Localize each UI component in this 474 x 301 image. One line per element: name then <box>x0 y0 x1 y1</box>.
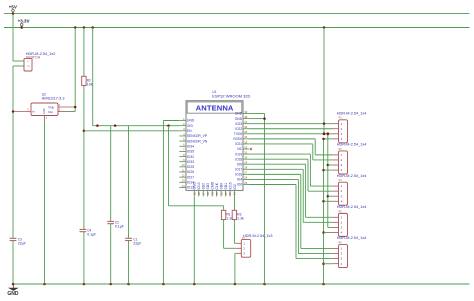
wire IO22 to P2.2 <box>249 128 333 130</box>
pin P5.4 <box>333 231 339 233</box>
svg-text:16: 16 <box>197 192 201 195</box>
svg-text:0.1µF: 0.1µF <box>115 225 124 229</box>
svg-text:13: 13 <box>182 179 185 183</box>
wire switch pin2 return down to C3/U2 <box>13 65 24 67</box>
svg-text:IO32: IO32 <box>187 155 194 159</box>
svg-text:IO16: IO16 <box>235 173 242 177</box>
pin P2.1 <box>333 123 339 125</box>
pin U1.19 CMD <box>211 191 213 197</box>
pin U1.2 3V3 <box>179 125 186 127</box>
svg-text:39: 39 <box>244 110 247 114</box>
svg-text:GND: GND <box>235 117 243 121</box>
pin U1.4 SENSOR_VP <box>179 135 186 137</box>
svg-text:3V3: 3V3 <box>187 124 193 128</box>
pin U2.4 TAB <box>58 106 75 108</box>
svg-text:15: 15 <box>193 192 197 195</box>
pin P6.2 <box>333 253 339 255</box>
svg-text:NC: NC <box>237 147 242 151</box>
wire 3V3 to C1 <box>128 126 130 239</box>
wire +5V down to switch <box>12 14 14 61</box>
wire RXD0 staircase to header <box>249 138 315 140</box>
pin U1.10 IO25 <box>179 166 186 168</box>
svg-text:CMD: CMD <box>210 181 214 189</box>
module U1 ESP32 WROOM 32D <box>186 90 251 191</box>
svg-text:IO17: IO17 <box>235 168 242 172</box>
svg-text:SD1: SD1 <box>224 183 228 190</box>
svg-text:10k: 10k <box>87 83 93 87</box>
pin U1.5 SENSOR_VN <box>179 140 186 142</box>
svg-text:+5V: +5V <box>9 5 18 10</box>
capacitor C4 0.1uF <box>80 228 97 236</box>
wire IO5 staircase to header <box>249 163 306 165</box>
pin U1.13 IO14 <box>179 181 186 183</box>
svg-text:IO26: IO26 <box>187 170 194 174</box>
wire 3V3 to C2 <box>110 126 112 222</box>
svg-text:24: 24 <box>233 192 237 195</box>
svg-text:EN: EN <box>187 129 192 133</box>
node GND38 junction <box>263 117 266 120</box>
svg-text:IO19: IO19 <box>235 152 242 156</box>
svg-text:AMS1117-3.3: AMS1117-3.3 <box>42 97 65 101</box>
pin U1.3 EN <box>179 130 186 132</box>
pin U1.6 IO34 <box>179 145 186 147</box>
svg-text:SD0: SD0 <box>219 183 223 190</box>
connector P1 HDR-M-2.54_1x2 SWITCH <box>24 52 55 71</box>
wire switch pin1 feed <box>13 60 24 62</box>
svg-text:12: 12 <box>182 173 185 177</box>
svg-text:RXD0: RXD0 <box>233 137 242 141</box>
wire bus B (pin-4 GND chain) <box>323 139 325 284</box>
pin P4.3 <box>333 195 339 197</box>
pin U2.3 In <box>13 111 31 113</box>
capacitor C1 22uF <box>125 237 141 245</box>
capacitor C2 0.1uF <box>107 220 124 228</box>
pin U1.24 IO2 <box>234 191 236 197</box>
pin U1.11 IO26 <box>179 171 186 173</box>
svg-text:29: 29 <box>244 161 247 165</box>
svg-text:21: 21 <box>219 192 223 195</box>
pin U1.12 IO27 <box>179 176 186 178</box>
node U2 In junction <box>12 110 15 113</box>
svg-text:26: 26 <box>244 176 247 180</box>
pin P3.1 <box>333 154 339 156</box>
wire +5V rail <box>4 13 470 15</box>
ground symbol GND <box>7 284 19 297</box>
wire IO17 staircase to header <box>249 168 303 170</box>
svg-text:HDR-M-2.54_1x4: HDR-M-2.54_1x4 <box>337 143 367 147</box>
svg-text:IO27: IO27 <box>187 175 194 179</box>
pin U1.33 IO21 <box>243 143 249 145</box>
pin U1.36 IO22 <box>243 128 249 130</box>
pin U1.27 IO16 <box>243 173 249 175</box>
svg-text:35: 35 <box>244 130 247 134</box>
wire U1 bottom GND to rail <box>193 197 195 285</box>
wire GND rail <box>13 283 470 285</box>
svg-text:HDR-M-2.54_1x4: HDR-M-2.54_1x4 <box>337 174 367 178</box>
pin U1.16 IO13 <box>198 191 200 197</box>
node bus B junctions <box>322 138 325 141</box>
wire bus B stub to P2.4 <box>324 138 333 140</box>
svg-text:38: 38 <box>244 115 247 119</box>
pin P6.1 <box>333 247 339 249</box>
resistor R3 1.3k <box>232 210 244 220</box>
wire U1 IO2 to R3 <box>234 197 236 211</box>
svg-text:36: 36 <box>244 125 247 129</box>
svg-text:IO13: IO13 <box>197 182 201 189</box>
wire U1 GND pin1 to rail <box>163 120 179 122</box>
wire 3V3 junction down to R1 <box>168 126 170 206</box>
wire +3.3V to U2 output <box>74 28 76 112</box>
pin U1.26 IO4 <box>243 178 249 180</box>
wire IO19 staircase to header <box>249 153 310 155</box>
svg-text:0.1µF: 0.1µF <box>87 233 96 237</box>
pin U1.22 SD1 <box>225 191 227 197</box>
wire U1 GND38 join <box>249 118 265 120</box>
wire IO23 to P2.1 <box>249 123 333 125</box>
node V1 junctions <box>323 122 326 125</box>
pin P3.4 <box>333 169 339 171</box>
svg-text:HDR-M-2.54_1x4: HDR-M-2.54_1x4 <box>337 236 367 240</box>
pin U1.35 TXD0 <box>243 133 249 135</box>
node U2 TAB junction <box>74 106 77 109</box>
svg-text:CLK: CLK <box>215 182 219 189</box>
svg-text:GND: GND <box>187 119 195 123</box>
wire EN to ESP32 <box>84 130 179 132</box>
svg-text:GND: GND <box>7 291 19 297</box>
svg-text:1.3k: 1.3k <box>237 217 244 221</box>
connector P7 HDR-M-2.54_1x3 <box>241 234 272 257</box>
wire U1 GND39 to rail <box>249 113 265 115</box>
pin P5.2 <box>333 221 339 223</box>
pin U1.18 SD3 <box>207 191 209 197</box>
pin P4.2 <box>333 190 339 192</box>
wire C4 to GND rail <box>83 232 85 284</box>
svg-text:HDR-M-2.54_1x3: HDR-M-2.54_1x3 <box>243 234 273 238</box>
wire IO21 staircase to header <box>249 143 313 145</box>
pin U1.31 IO19 <box>243 153 249 155</box>
node 3V3-R1 junction <box>167 124 170 127</box>
svg-text:IO35: IO35 <box>187 150 194 154</box>
pin P2.4 <box>333 138 339 140</box>
svg-text:TAB: TAB <box>48 105 54 109</box>
wire bus A stubs to pins <box>328 164 333 166</box>
connector P2 HDR-M-2.54_1x4 <box>337 111 367 142</box>
pin U1.15 GND <box>193 191 195 197</box>
pin P7.1 <box>236 242 242 244</box>
svg-text:SENSOR_VN: SENSOR_VN <box>187 139 208 143</box>
+5V power flag <box>9 5 18 14</box>
svg-text:IO5: IO5 <box>237 162 242 166</box>
pin U1.34 RXD0 <box>243 138 249 140</box>
wire IO18 staircase to header <box>249 158 308 160</box>
connector P3 HDR-M-2.54_1x4 <box>337 143 367 174</box>
svg-text:HDR-M-2.54_1x4: HDR-M-2.54_1x4 <box>337 205 367 209</box>
pin U1.21 SD0 <box>220 191 222 197</box>
pin P7.2 <box>236 247 242 249</box>
wire +3.3V feed down to P2 <box>323 28 325 134</box>
capacitor C3 22uF <box>10 237 26 245</box>
pin P3.3 <box>333 164 339 166</box>
svg-text:IO33: IO33 <box>187 160 194 164</box>
pin P2.3 <box>333 133 339 135</box>
svg-text:In: In <box>32 110 35 114</box>
svg-text:SENSOR_VP: SENSOR_VP <box>187 134 208 138</box>
svg-text:25: 25 <box>244 181 247 185</box>
svg-text:34: 34 <box>244 135 247 139</box>
wire IO4 staircase to header <box>249 178 298 180</box>
pin P4.4 <box>333 200 339 202</box>
pin U2.2 Out <box>58 111 66 113</box>
+3.3V power flag <box>18 19 30 28</box>
pin U1.30 IO18 <box>243 158 249 160</box>
pin P3.2 <box>333 159 339 161</box>
svg-text:22µF: 22µF <box>133 242 141 246</box>
pin U1.28 IO17 <box>243 168 249 170</box>
pin U1.37 IO23 <box>243 123 249 125</box>
pin U1.23 IO15 <box>229 191 231 197</box>
pin U1.39 GND <box>243 113 249 115</box>
wire C3 to GND rail <box>12 241 14 284</box>
svg-text:IO34: IO34 <box>187 144 194 148</box>
pin P5.1 <box>333 216 339 218</box>
svg-text:IO23: IO23 <box>235 122 242 126</box>
svg-text:HDR-M-2.54_1x4: HDR-M-2.54_1x4 <box>337 111 367 115</box>
pin U1.7 IO35 <box>179 150 186 152</box>
wire TXD0 to P2.3 <box>249 133 333 135</box>
svg-text:IO25: IO25 <box>187 165 194 169</box>
pin U1.25 IO0 <box>243 184 249 186</box>
wire R3 to P7 pin1 <box>233 220 235 244</box>
wire C2 to GND rail <box>110 224 112 284</box>
svg-text:11: 11 <box>182 168 185 172</box>
svg-text:IO15: IO15 <box>228 182 232 189</box>
node EN junction <box>83 130 86 133</box>
svg-text:IO22: IO22 <box>235 127 242 131</box>
wire +3.3V to R2 <box>83 28 85 77</box>
svg-text:GND: GND <box>193 182 197 190</box>
svg-text:Out: Out <box>48 110 53 114</box>
svg-text:28: 28 <box>244 166 247 170</box>
svg-text:IO21: IO21 <box>235 142 242 146</box>
pin U1.17 SD2 <box>202 191 204 197</box>
svg-text:32: 32 <box>244 145 247 149</box>
pin U1.29 IO5 <box>243 163 249 165</box>
svg-text:22µF: 22µF <box>18 242 26 246</box>
svg-text:27: 27 <box>244 171 247 175</box>
resistor R1 1.3k <box>221 210 233 220</box>
svg-text:20: 20 <box>215 192 219 195</box>
svg-text:37: 37 <box>244 120 247 124</box>
svg-text:GND: GND <box>235 112 243 116</box>
svg-text:IO2: IO2 <box>233 184 237 189</box>
svg-text:31: 31 <box>244 150 247 154</box>
svg-text:IO18: IO18 <box>235 157 242 161</box>
wire +3.3V down to 3V3 pin <box>92 28 94 126</box>
pin U1.1 GND <box>179 120 186 122</box>
wire IO16 staircase to header <box>249 173 301 175</box>
svg-text:18: 18 <box>206 192 210 195</box>
svg-text:30: 30 <box>244 155 247 159</box>
wire R1 to P7 pin2 <box>223 220 225 249</box>
pin P4.1 <box>333 185 339 187</box>
svg-text:+3.3V: +3.3V <box>18 19 30 24</box>
node bus A junctions <box>326 132 329 135</box>
pin U1.8 IO32 <box>179 156 186 158</box>
svg-text:SD2: SD2 <box>202 183 206 190</box>
wire C1 to GND rail <box>128 241 130 284</box>
pin P5.3 <box>333 226 339 228</box>
svg-text:22: 22 <box>224 192 228 195</box>
connector P6 HDR-M-2.54_1x4 <box>337 236 367 267</box>
pin U1.20 CLK <box>216 191 218 197</box>
svg-text:TXD0: TXD0 <box>234 132 243 136</box>
pin U2.1 GND down to rail <box>44 116 46 122</box>
pin U1.38 GND <box>243 118 249 120</box>
resistor R2 10k <box>82 76 93 86</box>
pin P6.4 <box>333 263 339 265</box>
voltage regulator U2 AMS1117-3.3 <box>27 92 64 120</box>
svg-text:ANTENNA: ANTENNA <box>196 104 234 113</box>
svg-text:IO0: IO0 <box>237 183 242 187</box>
pin P2.2 <box>333 128 339 130</box>
node GND rail junctions <box>12 283 15 286</box>
svg-text:14: 14 <box>182 184 185 188</box>
wire IO0 staircase to header <box>249 184 296 186</box>
node +3.3V junctions on rail <box>20 26 23 29</box>
wire bus A (pin-3 chain) <box>327 134 329 228</box>
svg-text:SD3: SD3 <box>206 183 210 190</box>
svg-text:IO4: IO4 <box>237 178 242 182</box>
pin P7.3 to GND <box>236 252 242 254</box>
svg-text:GND: GND <box>42 108 46 114</box>
pin U1.32 NC <box>243 148 249 150</box>
svg-text:ESP32 WROOM 32D: ESP32 WROOM 32D <box>212 93 250 98</box>
wire bus B stubs to pins <box>324 169 333 171</box>
node 3V3 wire junctions <box>96 124 99 127</box>
pin U1.9 IO33 <box>179 161 186 163</box>
svg-text:23: 23 <box>228 192 232 195</box>
connector P5 HDR-M-2.54_1x4 <box>337 205 367 236</box>
pin P6.3 <box>333 258 339 260</box>
svg-text:33: 33 <box>244 140 247 144</box>
wire R2 to EN node and C4 <box>83 86 85 230</box>
svg-text:19: 19 <box>210 192 214 195</box>
node +5V junction <box>12 12 15 15</box>
wire +3.3V rail <box>4 27 470 29</box>
svg-text:17: 17 <box>201 192 205 195</box>
connector P4 HDR-M-2.54_1x4 <box>337 174 367 205</box>
pin U1.14 IO12 <box>179 186 186 188</box>
svg-text:10: 10 <box>182 163 185 167</box>
